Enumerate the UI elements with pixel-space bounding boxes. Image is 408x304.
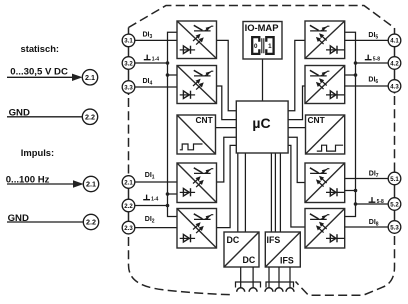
svg-text:3.2: 3.2 [124, 60, 133, 67]
svg-text:Impuls:: Impuls: [21, 147, 54, 158]
svg-text:1-4: 1-4 [152, 56, 159, 62]
svg-text:2.3: 2.3 [124, 225, 133, 232]
svg-text:2.1: 2.1 [85, 73, 95, 82]
svg-text:0...30,5 V DC: 0...30,5 V DC [10, 67, 68, 78]
svg-text:5-8: 5-8 [377, 199, 384, 205]
svg-text:IO-MAP: IO-MAP [245, 22, 279, 33]
svg-text:DC: DC [243, 255, 256, 265]
svg-text:CNT: CNT [196, 115, 214, 125]
svg-text:IFS: IFS [280, 256, 294, 266]
svg-text:5.3: 5.3 [390, 224, 399, 231]
svg-text:3.1: 3.1 [124, 38, 133, 45]
svg-text:5-8: 5-8 [373, 56, 380, 62]
svg-text:2.2: 2.2 [124, 203, 133, 210]
svg-text:0: 0 [254, 43, 258, 50]
svg-text:DC: DC [227, 235, 240, 245]
svg-text:IFS: IFS [267, 235, 281, 245]
svg-text:µC: µC [252, 115, 270, 131]
svg-text:statisch:: statisch: [21, 43, 60, 54]
svg-text:2.1: 2.1 [124, 179, 133, 186]
svg-text:2.2: 2.2 [86, 218, 96, 227]
svg-text:4.1: 4.1 [390, 38, 399, 45]
svg-text:CNT: CNT [308, 115, 326, 125]
svg-text:5.2: 5.2 [390, 201, 399, 208]
svg-text:5.1: 5.1 [390, 176, 399, 183]
svg-text:2.2: 2.2 [85, 112, 95, 121]
svg-text:3.3: 3.3 [124, 84, 133, 91]
svg-text:2.1: 2.1 [86, 180, 96, 189]
svg-text:1-4: 1-4 [151, 196, 158, 202]
svg-text:4.2: 4.2 [390, 60, 399, 67]
svg-text:4.3: 4.3 [390, 83, 399, 90]
svg-text:1: 1 [268, 43, 272, 50]
